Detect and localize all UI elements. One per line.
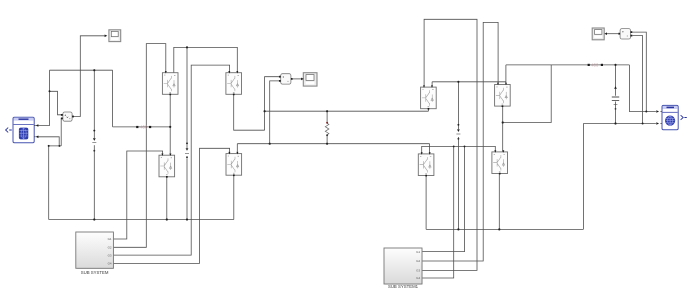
wire arrowhead into battery B1 plus — [36, 124, 39, 127]
wire: gate loop subsystem1 port3 to Q5 gate — [422, 19, 477, 270]
svg-text:SUB SYSTEM: SUB SYSTEM — [81, 270, 109, 275]
wire: DC rail1 long horizontal — [265, 110, 429, 112]
battery DC source B1 — [13, 117, 36, 143]
wire: rail1 riser to VM2 plus — [265, 77, 279, 131]
junction node Q3 emitter on bottom rail — [166, 218, 168, 220]
svg-text:G3: G3 — [416, 269, 420, 273]
wire arrowhead into battery B2 minus — [656, 122, 659, 125]
junction node capacitor bottom on battery minus wire — [614, 122, 616, 124]
wire arrowhead into mid scope — [301, 78, 304, 81]
IGBT/Diode Q2 — [226, 71, 242, 95]
wire: Q1 collector to DC+ top bus — [174, 47, 238, 72]
wire: VM1 + tap — [50, 91, 62, 115]
junction node Q8 emitter on right rail — [498, 228, 500, 230]
wire: gate riser port3 to Q2 gate — [113, 65, 229, 255]
subsystem SUB SYSTEM1 — [384, 248, 423, 288]
wire: right phase to 400 rail — [503, 65, 552, 123]
wire: rail2 right end down to Q7 collector — [429, 144, 431, 154]
wire arrowhead into battery B1 minus — [36, 136, 39, 139]
junction node resistor top on rail1 — [326, 110, 328, 112]
wire arrowhead into battery B2 plus — [656, 110, 659, 113]
wire: Q8 emitter to right rail — [498, 174, 500, 230]
wire: VM1 - down to battery minus jog — [60, 118, 62, 146]
svg-text:G2: G2 — [416, 259, 420, 263]
IGBT/Diode Q7 — [418, 152, 434, 176]
voltage measurement VM2 — [279, 74, 293, 84]
wire: capacitor branch top — [615, 65, 617, 96]
junction node VM minus on battery jog — [58, 145, 60, 147]
wire: VM4 output to scope2 — [607, 33, 619, 35]
battery DC source B2 — [660, 105, 678, 129]
svg-text:G1: G1 — [416, 250, 420, 254]
junction node battery plus tap — [49, 90, 51, 92]
current label 400 on right rail — [588, 63, 603, 68]
wire: series element SE2 lower — [186, 158, 188, 219]
wire: 400 rail horizontal — [506, 64, 630, 66]
junction node SE1 on bottom rail — [93, 218, 95, 220]
junction node SE3 on right rail — [457, 228, 459, 230]
junction node VM4 minus tap — [642, 123, 644, 125]
junction node rail1 left — [264, 110, 266, 112]
wire: series element SE3 lower — [457, 137, 459, 229]
junction node SE2 on bottom rail — [186, 218, 188, 220]
junction node port1 riser on gate line — [464, 145, 466, 147]
wire: gate loop subsystem1 port2 to Q6 gate — [422, 22, 498, 261]
wire: gate subsystem1 port1 riser — [422, 146, 465, 251]
junction node phase A — [169, 126, 171, 128]
IGBT/Diode Q4 — [226, 152, 242, 176]
wire: VM2 output to scope3 — [293, 78, 301, 80]
svg-text:SUB SYSTEM1: SUB SYSTEM1 — [388, 284, 419, 288]
junction node right phase tap — [502, 121, 504, 123]
wire: left bottom rail — [49, 219, 234, 221]
wire: Q2 emitter down and to rail1 — [234, 94, 265, 130]
wire: rail2 left end down to Q4 collector — [236, 144, 238, 153]
wire: DC rail2 long horizontal — [237, 143, 429, 145]
IGBT/Diode Q8 — [492, 150, 508, 174]
wire: Q5 emitter stub to rail1 — [427, 109, 429, 112]
IGBT/Diode Q3 — [159, 154, 175, 178]
wire: battery1 + to left vertical riser — [37, 70, 49, 125]
IGBT/Diode Q6 — [495, 83, 511, 107]
wire: right phase node Q6 emitter to Q8 collector — [502, 106, 504, 152]
wire: phase drop vertical — [112, 70, 114, 127]
svg-text:G1: G1 — [108, 237, 112, 241]
wire: series element SE1 vertical upper — [93, 70, 95, 138]
wire: VM4 plus tap down to battery2 plus wire — [632, 32, 646, 111]
junction node battery minus corner — [48, 145, 50, 147]
voltage measurement VM1 — [61, 112, 74, 121]
svg-text:400: 400 — [140, 125, 148, 130]
svg-text:400: 400 — [591, 63, 599, 68]
junction node port4 riser on gate line — [453, 145, 455, 147]
wire: gate riser port2 to Q1 gate — [113, 44, 165, 248]
wire arrowhead into Scope1 — [105, 35, 108, 38]
scope Scope3 (right) — [592, 28, 604, 40]
wire: VM2 minus tap to rail2 — [270, 81, 279, 144]
wire: Q6 collector riser to 400 rail — [505, 65, 507, 85]
wire: battery2 minus horizontal — [583, 123, 656, 125]
wire: top horizontal from battery+ riser to phase drop — [50, 69, 113, 71]
wire: shared gate line to Q7 and Q8 gates — [422, 146, 496, 153]
series element SE2 marks — [185, 46, 189, 158]
junction node resistor bottom on rail2 — [326, 143, 328, 145]
wire: capacitor branch bottom — [615, 102, 617, 124]
series element SE1 marks — [92, 69, 96, 152]
wire: battery2 minus down to right bottom rail — [582, 124, 584, 230]
scope Scope2 (mid) — [303, 73, 317, 86]
battery B2 output port arrow — [681, 115, 687, 120]
wire: series element SE1 vertical lower — [93, 145, 95, 219]
wire: resistor branch top — [326, 111, 328, 122]
svg-text:G3: G3 — [108, 253, 112, 257]
wire: gate riser port1 to Q3 gate — [113, 151, 162, 239]
current label 400 on left phase wire — [136, 125, 151, 130]
junction node VM2 minus on rail2 — [269, 143, 271, 145]
subsystem SUB SYSTEM — [76, 232, 114, 275]
wire: VM4 minus tap down to battery2 minus wire — [632, 36, 642, 124]
wire: VM1 output up to scope1 — [72, 36, 105, 117]
junction node VM4 plus tap — [645, 111, 647, 113]
scope Scope1 — [109, 30, 121, 42]
series element SE3 marks — [456, 81, 460, 140]
wire: Q4 emitter to bottom rail end — [233, 175, 235, 219]
junction node capacitor top on 400 rail — [614, 64, 616, 66]
IGBT/Diode Q5 — [421, 85, 437, 109]
wire: right DC+ bus — [432, 81, 506, 83]
wire: Q1 emitter to Q3 collector phase node — [169, 94, 171, 155]
resistor R1 — [325, 122, 329, 136]
IGBT/Diode Q1 — [162, 71, 178, 95]
wire: Q7 emitter to right rail — [425, 176, 427, 230]
wire: series element SE3 upper — [457, 82, 459, 130]
capacitor C1 — [612, 86, 619, 110]
wire: battery1 - to bottom rail — [37, 137, 61, 220]
wire: gate riser port4 to Q4 gate — [113, 148, 229, 263]
wire: 400 rail down to battery2 plus — [629, 65, 656, 112]
wire arrowhead into Scope3 — [604, 32, 607, 35]
wire: right bottom rail — [426, 228, 583, 230]
wire: series element SE2 from DC+ — [186, 47, 188, 148]
svg-text:G2: G2 — [108, 246, 112, 250]
wire: gate subsystem1 port4 riser — [422, 146, 454, 278]
battery B1 input port arrow — [6, 128, 12, 133]
wire: Q5 collector stub — [431, 82, 433, 87]
svg-text:G4: G4 — [416, 276, 420, 280]
svg-text:G4: G4 — [108, 262, 112, 266]
wire: phase A horizontal with 400 label — [113, 126, 171, 128]
voltage measurement VM4 — [618, 29, 632, 39]
wire: resistor branch bottom — [326, 136, 328, 144]
wire: Q3 emitter to bottom rail — [166, 177, 168, 220]
